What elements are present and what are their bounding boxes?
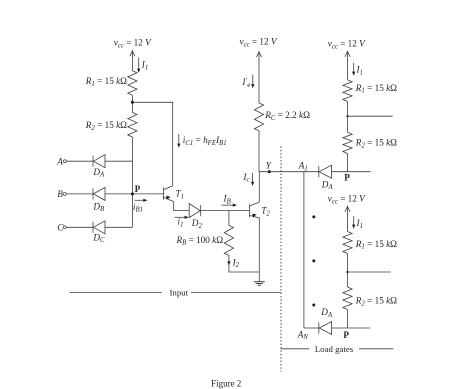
wire R1 to R2 (load gate 1) bbox=[347, 101, 349, 132]
svg-text:Load gates: Load gates bbox=[315, 344, 354, 354]
wire Y line to load diode bbox=[259, 171, 319, 173]
wire R2 bottom to P (load gate 1) bbox=[347, 154, 349, 172]
svg-text:B: B bbox=[57, 189, 63, 199]
wire diode to P rail (load gate 2) bbox=[332, 327, 371, 329]
resistor R1 bbox=[128, 71, 137, 95]
wire RB bottom to ground rail bbox=[229, 255, 259, 272]
wire DB through P to T1 base bbox=[105, 193, 164, 195]
node Y bbox=[268, 170, 271, 173]
svg-text:P: P bbox=[343, 330, 349, 340]
supply arrow vcc (RC branch) bbox=[258, 52, 260, 103]
bus wire A1 to AN bbox=[303, 172, 305, 328]
ellipsis dot 2 bbox=[312, 259, 315, 262]
wire T2 emitter to ground bbox=[258, 218, 260, 282]
diode DC bbox=[92, 222, 94, 233]
wire DC to bus bbox=[105, 226, 132, 228]
junction node (load gate 2) bbox=[346, 271, 348, 273]
stub wire (load gate 1) bbox=[348, 115, 393, 117]
svg-text:P: P bbox=[344, 172, 350, 182]
resistor R2 (load gate 1) bbox=[343, 132, 352, 153]
wire T2 collector to Y bbox=[258, 172, 260, 202]
resistor R2 (load gate 2) bbox=[343, 287, 352, 310]
node P (left gate) bbox=[131, 192, 134, 195]
input rule right bbox=[191, 292, 281, 294]
wire AN corner to diode (load gate 2) bbox=[304, 327, 319, 329]
wire A to DA bbox=[66, 160, 93, 162]
resistor R1 (load gate 1) bbox=[343, 80, 352, 102]
resistor RB bbox=[228, 211, 230, 226]
transistor T2 bbox=[249, 204, 251, 217]
svg-text:P: P bbox=[135, 184, 141, 194]
stub wire (load gate 2) bbox=[348, 271, 391, 273]
separator dashed line bbox=[280, 146, 282, 371]
wire DA to bus bbox=[105, 160, 132, 162]
wire junction to T1 collector bbox=[132, 102, 172, 186]
transistor T1 bbox=[163, 187, 165, 199]
current arrow iB1 bbox=[135, 199, 144, 201]
load gates rule left bbox=[281, 348, 310, 350]
current arrow I1 (load gate 2) bbox=[353, 216, 355, 225]
current arrow I2 bbox=[227, 261, 230, 265]
current arrow I1 (left gate) bbox=[138, 58, 140, 70]
diode DA bbox=[92, 156, 94, 167]
svg-text:Input: Input bbox=[170, 287, 189, 297]
ellipsis dot 3 bbox=[312, 304, 315, 307]
current arrow I'4 (RC branch) bbox=[252, 75, 254, 85]
current arrow Ic bbox=[252, 173, 254, 183]
wire R1 to R2 (load gate 2) bbox=[347, 254, 349, 288]
diode D2 bbox=[200, 205, 202, 216]
diode DB bbox=[92, 188, 94, 199]
junction node (load gate 1) bbox=[346, 115, 348, 117]
current arrow i1 bbox=[175, 216, 186, 218]
svg-text:Y: Y bbox=[266, 161, 272, 171]
current arrow I1 (load gate 1) bbox=[353, 63, 355, 73]
resistor R2 bbox=[128, 113, 137, 138]
supply arrow vcc (left gate) bbox=[131, 51, 133, 71]
wire R2 bottom to P (load gate 2) bbox=[347, 310, 349, 329]
load gates rule right bbox=[359, 348, 393, 350]
diode DA (load gate 2) bbox=[318, 322, 320, 333]
svg-text:A: A bbox=[56, 156, 63, 166]
ellipsis dot 1 bbox=[312, 215, 315, 218]
wire RC bottom to Y bbox=[258, 131, 260, 172]
input rule left bbox=[70, 292, 162, 294]
svg-text:Figure 2: Figure 2 bbox=[211, 378, 241, 388]
wire diode to P rail (load gate 1) bbox=[332, 171, 371, 173]
ground bbox=[254, 281, 265, 283]
wire R2 bottom to C-row bus bbox=[131, 137, 133, 227]
wire R1 bottom to junction bbox=[131, 95, 133, 112]
current arrow iC1 bbox=[178, 134, 180, 144]
current arrow IB bbox=[221, 204, 233, 206]
resistor RC bbox=[254, 103, 263, 131]
junction node R1/R2 bbox=[131, 101, 134, 104]
resistor R1 (load gate 2) bbox=[343, 232, 352, 254]
diode DA (load gate 1) bbox=[318, 166, 320, 177]
wire C to DC bbox=[66, 226, 93, 228]
supply arrow vcc (load gate 1) bbox=[347, 51, 349, 80]
wire T1 emitter to D2 bbox=[174, 202, 190, 211]
supply arrow vcc (load gate 2) bbox=[347, 206, 349, 231]
wire B to DB bbox=[66, 193, 93, 195]
wire D2 to T2 base bbox=[201, 210, 250, 212]
